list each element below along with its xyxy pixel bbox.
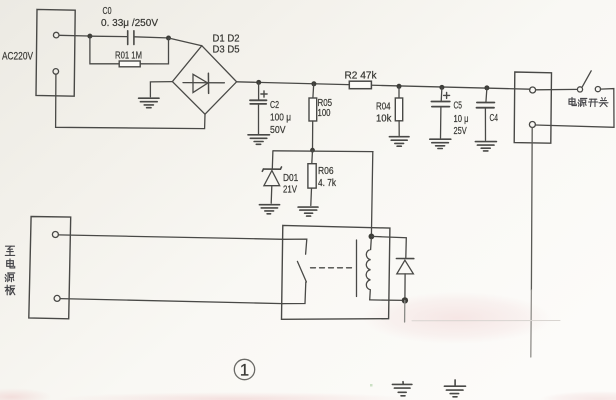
label 10u [454, 114, 469, 125]
label R05 [318, 98, 333, 109]
resistor R01 [119, 61, 140, 67]
svg-text:D01: D01 [283, 173, 299, 184]
relay contact blade [297, 261, 306, 282]
ground G9 floating [444, 380, 465, 397]
wire J1-1 to node N1 [59, 34, 88, 37]
figure number circle 1 [234, 359, 254, 379]
ground G2 [248, 135, 270, 145]
node N3 junction R05 R06 [310, 148, 315, 153]
terminal circle J3-1 [52, 232, 58, 238]
wire C5 to ground [440, 107, 442, 138]
ground G6 [259, 205, 279, 214]
label 100 [318, 108, 331, 119]
C2 plus sign [261, 91, 267, 97]
ground G1 [139, 98, 159, 108]
relay coil L1 [366, 239, 371, 300]
wire node fading down [404, 300, 406, 322]
wire C4 to ground [484, 108, 486, 141]
svg-text:R01 1M: R01 1M [115, 51, 142, 62]
svg-text:C5: C5 [454, 101, 463, 112]
zener D01 cathode bar [262, 167, 281, 171]
wire horizontal D01 to relay branch [273, 150, 373, 153]
glyph ban [5, 285, 15, 295]
node coil top [369, 234, 375, 240]
wire D01 to ground [270, 186, 273, 204]
glyph guan [599, 98, 608, 107]
capacitor C2 stem [258, 82, 260, 100]
bridge diode cathode bar [207, 73, 209, 93]
svg-text:21V: 21V [283, 185, 297, 196]
label C0 [103, 6, 112, 17]
svg-text:C4: C4 [490, 113, 499, 124]
svg-text:C2: C2 [270, 100, 279, 111]
ground G5 [475, 142, 496, 151]
node N1 [87, 34, 92, 39]
main positive rail [237, 82, 530, 89]
switch S1 lever [582, 71, 591, 88]
label D3 D5 [213, 45, 240, 56]
wire R05 to node N3 [312, 121, 314, 150]
label 25V [454, 126, 467, 137]
wire N1 down to R01 branch [90, 36, 119, 64]
glyph yuan [578, 98, 587, 106]
terminal circle J3-2 [54, 295, 60, 301]
ground G3 [389, 137, 409, 147]
svg-text:R06: R06 [318, 166, 334, 177]
wire switch to right edge [535, 89, 614, 128]
pink scan smudge bottom-right corner [540, 391, 616, 400]
wire coil node to flyback diode [371, 236, 406, 258]
glyph dian [569, 97, 576, 105]
terminal circle J1-2 [53, 69, 59, 75]
resistor R04 [395, 98, 402, 121]
wire N2 to bridge top [169, 38, 202, 46]
flyback diode D anode wire [404, 274, 406, 301]
svg-text:50V: 50V [270, 125, 286, 136]
svg-text:D3 D5: D3 D5 [213, 45, 240, 56]
pink scan smudge bottom-left corner [0, 388, 52, 400]
relay contact bottom lead [283, 282, 306, 304]
glyph yuan2 [5, 273, 15, 282]
node C4 [484, 85, 489, 90]
pink scan smudge right of relay [362, 292, 552, 344]
zener D01 stem [271, 151, 274, 169]
wire J2-2 vertical faded tail [530, 290, 533, 357]
svg-text:10k: 10k [376, 114, 392, 125]
capacitor C2 plates [250, 100, 267, 104]
label 4.7k [318, 178, 337, 189]
connector J3 box to power board [29, 217, 71, 319]
capacitor C5 stem [440, 87, 443, 101]
terminal circle J2-2 [529, 122, 535, 128]
node C5 [439, 85, 444, 90]
bridge diode line [183, 82, 224, 84]
scan speck [370, 384, 373, 387]
wire N1 to C0 [92, 35, 127, 37]
svg-text:R04: R04 [376, 102, 391, 113]
ground G4 [430, 139, 451, 148]
label R2 47k [345, 71, 378, 82]
svg-text:0. 33μ /250V: 0. 33μ /250V [101, 18, 158, 29]
capacitor C4 stem [486, 88, 487, 103]
connector J2 output box [514, 72, 551, 143]
ground G8 floating [392, 382, 412, 396]
glyph dian2 [7, 259, 15, 268]
label R06 [318, 166, 334, 177]
label C2 [270, 100, 279, 111]
value label 0.33u/250V [101, 18, 158, 29]
relay linkage dashed line [311, 267, 353, 269]
svg-text:100 μ: 100 μ [270, 113, 291, 124]
wire down to relay coil [371, 152, 372, 237]
glyph zhi [5, 246, 14, 255]
wire R04 to ground [398, 121, 400, 136]
wire C2 to ground [258, 104, 260, 134]
label AC220V [2, 51, 33, 63]
terminal circle J1-1 [53, 32, 59, 38]
label 21V [283, 185, 297, 196]
wire C0 to node N2 [135, 37, 167, 38]
node N2 [166, 36, 171, 41]
capacitor C5 plates [431, 102, 449, 107]
capacitor C0 [128, 31, 134, 45]
wire N3 to R06 [311, 150, 314, 164]
connector J1 AC input box [36, 9, 75, 96]
wire bridge left corner to ground [150, 82, 172, 97]
svg-text:100: 100 [318, 108, 331, 119]
wire J2-2 down long vertical [530, 128, 533, 291]
wire J2-1 to switch [536, 88, 578, 90]
terminal circle J2-1 [530, 87, 536, 93]
resistor R05 [309, 98, 317, 121]
relay K1 box [282, 225, 390, 319]
glyph kai [589, 99, 598, 106]
switch S1 circle right [595, 87, 600, 92]
svg-text:C0: C0 [103, 6, 112, 17]
label 100u [270, 113, 291, 124]
relay contact top lead [283, 239, 307, 254]
svg-text:1: 1 [240, 361, 249, 380]
resistor R06 [308, 164, 316, 188]
wire coil bottom to node [370, 299, 405, 302]
svg-text:AC220V: AC220V [2, 51, 33, 63]
svg-text:10 μ: 10 μ [454, 114, 469, 125]
label 电源开关 hand drawn [569, 97, 608, 106]
label R01 1M [115, 51, 142, 62]
label 10k [376, 114, 392, 125]
label C5 [454, 101, 463, 112]
svg-text:D1 D2: D1 D2 [213, 34, 240, 45]
pink scan smudge bottom strip [55, 392, 415, 400]
node relay bottom [402, 297, 408, 303]
label R04 [376, 102, 391, 113]
flyback diode D cathode bar [396, 258, 413, 260]
relay armature bar [356, 240, 358, 297]
faint scan line [412, 320, 560, 322]
svg-text:R2 47k: R2 47k [345, 71, 378, 82]
wire R01 to N2 [140, 38, 168, 64]
node R05 top [311, 81, 316, 86]
switch S1 circle left [577, 87, 582, 92]
label D1 D2 [213, 34, 240, 45]
svg-text:4. 7k: 4. 7k [318, 178, 337, 189]
svg-text:25V: 25V [454, 126, 467, 137]
wire J3-1 to relay contact [58, 235, 283, 239]
bridge diode triangle [193, 74, 208, 92]
label D01 [283, 173, 299, 184]
wire R06 to ground [310, 188, 313, 205]
ground G7 [298, 207, 318, 216]
wire rail to R04 [398, 86, 400, 98]
label 50V [270, 125, 286, 136]
C5 plus sign [444, 92, 450, 98]
wire rail to R05 [312, 84, 315, 98]
wire bridge bottom corner to J1-2 [56, 74, 205, 128]
capacitor C4 plates [477, 103, 495, 108]
bridge rectifier D1 D2 D3 D5 [172, 46, 236, 115]
resistor R2 [349, 81, 371, 89]
node C2 [256, 80, 261, 85]
wire J3-2 to relay contact bottom [60, 299, 283, 304]
node R04 [397, 84, 402, 89]
label 至电源板 hand drawn vertical [5, 246, 15, 295]
label C4 [490, 113, 499, 124]
flyback diode D triangle [397, 260, 414, 274]
zener D01 triangle [264, 171, 280, 186]
